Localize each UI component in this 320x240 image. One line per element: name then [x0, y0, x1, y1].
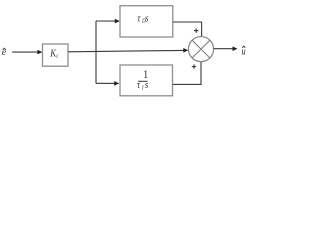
plus sign top input [194, 28, 198, 32]
node e-hat input label [2, 47, 7, 58]
svg-text:s: s [145, 79, 149, 91]
plus sign bottom input [192, 64, 196, 68]
block tauD s (derivative) [120, 6, 173, 37]
summer (multiplier circle with X) [188, 37, 213, 62]
wire input arrow to Kc [12, 50, 42, 55]
wire derivative output to summer top [173, 22, 202, 37]
node u-hat output label [242, 46, 246, 58]
wire integral output to summer bottom [173, 62, 201, 85]
svg-text:c: c [56, 53, 59, 60]
wire branch to integral block [96, 81, 119, 86]
svg-text:τ: τ [137, 79, 141, 91]
wire Kc output to summer [68, 48, 188, 53]
svg-text:s: s [145, 13, 149, 25]
svg-text:u: u [242, 47, 246, 58]
block 1/(tauI s) (integral) [120, 65, 173, 96]
block Kc [43, 44, 69, 66]
wire branch to derivative block [96, 19, 120, 24]
wire branch vertical [95, 21, 97, 83]
svg-text:τ: τ [137, 13, 141, 25]
wire summer output arrow [214, 46, 238, 51]
